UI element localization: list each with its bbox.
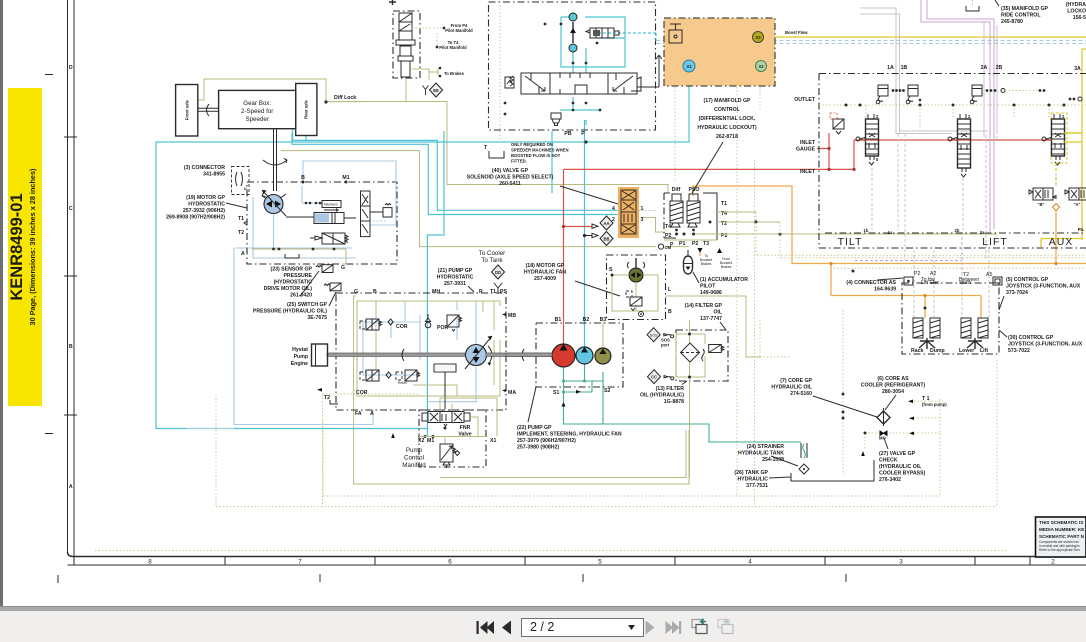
pump: fan pump B3 olive <box>595 348 611 364</box>
svg-text:P1: P1 <box>679 241 685 247</box>
valve: boost directional spool <box>505 55 662 94</box>
wire: gray dotted port1 stub <box>639 210 656 212</box>
junction dots filter <box>688 333 691 379</box>
wire: motor internal blue loop <box>253 161 396 258</box>
svg-text:Diff Lock: Diff Lock <box>334 95 356 101</box>
svg-text:FNR: FNR <box>460 425 471 431</box>
shaft: front axle to gearbox <box>198 104 219 116</box>
wire: khaki diff-lock run gearbox to Diff solenoid <box>198 79 668 192</box>
svg-text:A: A <box>241 251 245 257</box>
svg-text:A5: A5 <box>986 272 992 278</box>
box: rear axle <box>296 84 317 136</box>
svg-text:(5) CONTROL GP: (5) CONTROL GP <box>1006 277 1049 283</box>
label: (3) CONNECTOR <box>184 165 225 178</box>
label: pump top ports G B MH R T1 PS <box>354 289 507 295</box>
svg-text:JOYSTICK (3-FUNCTION, AUX: JOYSTICK (3-FUNCTION, AUX <box>1008 342 1083 348</box>
separator band <box>0 606 1086 612</box>
label: motor ports B M1 T1 T2 A G <box>238 175 350 271</box>
shaft: drive shaft through pump <box>327 349 552 361</box>
svg-text:OIL: OIL <box>713 310 722 316</box>
wire: khaki brake valve drops <box>406 69 429 102</box>
wire: khaki outlet dotted rail <box>819 104 1086 106</box>
label: (24) STRAINER HYDRAULIC TANK <box>738 444 798 466</box>
valve: COR upper <box>360 319 408 330</box>
label: (26) TANK GP HYDRAULIC <box>734 470 791 489</box>
svg-text:276-3402: 276-3402 <box>879 477 901 483</box>
junction dots joystick <box>852 270 927 310</box>
svg-text:A: A <box>370 411 374 417</box>
box: fan motor dash-dot <box>607 255 666 320</box>
pump: implement pump B1 red <box>552 344 575 367</box>
svg-text:2a: 2a <box>980 230 985 235</box>
valve: POR <box>425 314 461 331</box>
svg-text:SOS: SOS <box>650 333 658 337</box>
wire: khaki manifold inner <box>419 398 497 444</box>
label: (40) VALVE GP SOLENOID <box>467 168 618 204</box>
svg-text:D: D <box>69 65 73 71</box>
svg-text:(HYDRAULIC OIL: (HYDRAULIC OIL <box>879 464 922 470</box>
box: hystat engine <box>291 344 328 367</box>
connector: (4) square <box>904 277 913 285</box>
wire: cyan axle select upper <box>293 128 618 210</box>
svg-text:EE: EE <box>433 88 439 93</box>
svg-text:262-8718: 262-8718 <box>716 134 738 140</box>
label: T2 port arrow <box>317 388 338 404</box>
svg-text:T4: T4 <box>665 224 671 230</box>
svg-text:(3) CONNECTOR: (3) CONNECTOR <box>184 165 225 171</box>
symbol: orange pilot diamond <box>1053 204 1060 211</box>
cooler: diamond heat exchanger <box>877 408 890 426</box>
left gray strip <box>0 0 3 606</box>
label: FA A bottom <box>355 411 374 417</box>
svg-text:HYDRAULIC: HYDRAULIC <box>737 477 768 483</box>
svg-text:257-4009: 257-4009 <box>534 276 556 282</box>
compensator: lift pair <box>970 85 1045 104</box>
svg-text:OUTLET: OUTLET <box>794 97 816 103</box>
svg-text:257-3932 (906H2): 257-3932 (906H2) <box>183 208 225 214</box>
valve: boost relief cartridge <box>586 28 619 38</box>
sensor: (25) pressure switch symbol <box>324 283 341 291</box>
spool: LIFT section <box>948 114 971 177</box>
wire: cyan boost internal <box>560 12 656 125</box>
label: joystick tiny ports <box>914 271 992 286</box>
svg-text:(23) SENSOR GP: (23) SENSOR GP <box>270 267 312 273</box>
label: From Boosted Brakes <box>717 248 732 269</box>
junction dots cooler <box>842 393 867 435</box>
svg-text:X1: X1 <box>686 64 692 69</box>
svg-text:Pump: Pump <box>294 354 308 360</box>
label: (19) MOTOR GP <box>166 195 247 221</box>
wire: teal junction dots <box>562 380 586 394</box>
svg-text:373-7024: 373-7024 <box>1006 290 1028 296</box>
valve: right selector column <box>361 191 371 237</box>
symbol: BB diamond <box>583 232 613 246</box>
label: (21) PUMP GP HYDROSTATIC <box>437 268 474 292</box>
svg-text:M1: M1 <box>342 175 349 181</box>
svg-text:HYDROSTATIC: HYDROSTATIC <box>437 275 474 281</box>
shaft: into implement pump <box>506 353 552 356</box>
box: implement pump dash-dot <box>536 323 623 387</box>
junction dots outlet rail <box>845 104 1066 107</box>
valve: fan relief <box>626 291 642 311</box>
label: (22) PUMP GP IMPLEMENT <box>517 387 622 451</box>
junction dots motor <box>272 202 335 251</box>
label: (23) SENSOR GP <box>264 267 319 299</box>
svg-text:THIS SCHEMATIC IS: THIS SCHEMATIC IS <box>1039 520 1083 525</box>
joystick: rack dump coils <box>911 318 945 354</box>
svg-text:1B: 1B <box>901 65 908 71</box>
svg-text:HYDRAULIC TANK: HYDRAULIC TANK <box>738 451 784 457</box>
label: S1 S2 and arrows <box>553 388 610 407</box>
svg-text:PILOT: PILOT <box>700 284 716 290</box>
svg-text:HYDROSTATIC: HYDROSTATIC <box>188 202 225 208</box>
svg-text:GAUGE: GAUGE <box>796 147 816 153</box>
label: MB MA ports <box>502 313 516 396</box>
label: (1) ACCUMULATOR PILOT <box>693 272 748 296</box>
label: (18) MOTOR GP HYDRAULIC FAN <box>524 263 620 296</box>
svg-text:X2: X2 <box>418 438 424 444</box>
svg-text:(35) MANIFOLD GP: (35) MANIFOLD GP <box>1001 6 1049 12</box>
wire: light blue pump inner <box>363 301 476 401</box>
svg-text:(HYDROSTATIC: (HYDROSTATIC <box>274 280 313 286</box>
wire: orange junction dots <box>829 262 1057 297</box>
port: X2 circle <box>756 61 767 72</box>
box: diff dash-dot <box>664 193 670 238</box>
svg-text:JOYSTICK (3-FUNCTION, AUX: JOYSTICK (3-FUNCTION, AUX <box>1006 284 1081 290</box>
valve: FNR spool <box>422 412 470 427</box>
svg-text:Lift Elec: Lift Elec <box>921 280 940 286</box>
svg-text:SOLENOID (AXLE SPEED SELECT): SOLENOID (AXLE SPEED SELECT) <box>467 175 554 181</box>
box: hystat pump dash-dot <box>336 293 506 410</box>
label: (17) MANIFOLD GP <box>692 98 757 193</box>
svg-text:CONTROL: CONTROL <box>714 107 740 113</box>
svg-text:A: A <box>69 484 73 490</box>
box: filter dash-dot <box>676 330 728 381</box>
svg-text:Lift: Lift <box>980 348 988 354</box>
solenoid: PSO coil <box>687 187 700 231</box>
label: (35) MANIFOLD GP RIDE CONTROL <box>995 0 1049 25</box>
label: TILT LIFT AUX <box>838 236 1074 248</box>
svg-text:T1: T1 <box>238 216 244 222</box>
svg-text:Maximum: Maximum <box>324 203 338 207</box>
svg-text:1a: 1a <box>888 230 893 235</box>
svg-text:BOOSTED FLOW IS NOT: BOOSTED FLOW IS NOT <box>511 153 561 158</box>
svg-text:6: 6 <box>448 559 452 566</box>
svg-text:G: G <box>341 265 345 271</box>
wire: silver joystick lines 1A 1B <box>860 8 988 318</box>
valve: COR lower <box>356 370 391 396</box>
svg-text:MB: MB <box>508 313 516 319</box>
svg-text:FITTED.: FITTED. <box>511 159 527 164</box>
svg-text:HYDRAULIC FAN: HYDRAULIC FAN <box>524 270 567 276</box>
svg-text:COR: COR <box>396 324 408 330</box>
symbol: SOS diamond <box>647 328 674 348</box>
symbol: AA diamond <box>592 216 613 230</box>
svg-text:Manifold: Manifold <box>402 462 426 469</box>
svg-text:(HYDRA: (HYDRA <box>1066 2 1086 8</box>
motor: fan motor circle <box>627 258 644 282</box>
wire: purple dashed pilot rail <box>855 260 962 262</box>
label: B1 B2 B3 <box>555 317 607 323</box>
arrows: cooler flow <box>391 417 914 457</box>
fold tick marks <box>45 75 846 584</box>
wire: khaki big loop G port <box>354 296 689 484</box>
wire: yellow boost flow <box>767 37 1086 247</box>
wire: khaki tank return OM line <box>281 151 689 247</box>
symbol: bracket under motor <box>285 254 299 258</box>
box: PSO ladder frame <box>664 193 717 240</box>
info box bottom right <box>1036 517 1086 557</box>
svg-text:MEDIA NUMBER: KE: MEDIA NUMBER: KE <box>1039 527 1084 532</box>
svg-text:PB: PB <box>564 131 571 137</box>
svg-text:(DIFFERENTIAL LOCK,: (DIFFERENTIAL LOCK, <box>699 116 756 122</box>
svg-text:Rack: Rack <box>911 348 924 354</box>
svg-text:AA: AA <box>603 221 609 226</box>
svg-text:269-8908 (907H2/908H2): 269-8908 (907H2/908H2) <box>166 215 225 221</box>
svg-text:M1: M1 <box>427 438 434 444</box>
page cut mark top-left <box>389 0 396 5</box>
label: (4) CONNECTOR AS <box>846 278 903 293</box>
next-view icon (disabled) <box>718 619 733 634</box>
tank: (26) outline <box>791 460 874 481</box>
svg-text:Rear axle: Rear axle <box>303 100 308 119</box>
svg-text:257-3979 (906H2/907H2): 257-3979 (906H2/907H2) <box>517 438 576 444</box>
svg-text:Dump: Dump <box>930 348 945 354</box>
svg-text:PRESSURE: PRESSURE <box>283 273 312 279</box>
svg-text:To Tank: To Tank <box>481 257 503 264</box>
label: From P4 Pilot Manifold <box>412 23 473 33</box>
svg-text:280-3054: 280-3054 <box>882 389 904 395</box>
svg-text:To Brakes: To Brakes <box>444 71 465 76</box>
svg-text:BB: BB <box>603 237 609 242</box>
strainer: (24) tank strainer <box>799 443 809 474</box>
junction dots ladder <box>675 221 782 236</box>
label: G sensor tie <box>342 249 346 264</box>
svg-text:341-8955: 341-8955 <box>203 172 225 178</box>
svg-text:LOCKO: LOCKO <box>1067 9 1086 15</box>
svg-text:B: B <box>668 309 672 315</box>
port: X3 circle <box>753 32 764 43</box>
svg-text:T3: T3 <box>703 241 709 247</box>
svg-text:port: port <box>661 343 670 348</box>
svg-text:(22) PUMP GP: (22) PUMP GP <box>517 425 552 431</box>
svg-text:COR: COR <box>356 390 368 396</box>
svg-text:INLET: INLET <box>800 140 816 146</box>
svg-text:1A: 1A <box>887 65 894 71</box>
label: T1 from pump <box>908 396 947 407</box>
label: To Boosted Brakes <box>698 248 713 266</box>
svg-text:164-9639: 164-9639 <box>874 287 896 293</box>
svg-text:(24) STRAINER: (24) STRAINER <box>747 444 784 450</box>
svg-text:T2: T2 <box>238 230 244 236</box>
svg-text:2A: 2A <box>981 65 988 71</box>
svg-text:1G-8878: 1G-8878 <box>664 399 684 405</box>
svg-text:260-5411: 260-5411 <box>499 181 521 187</box>
svg-text:Speeder: Speeder <box>245 116 268 123</box>
wire: red inlet main <box>564 133 1053 344</box>
svg-text:MO: MO <box>879 436 886 441</box>
bottom toolbar <box>0 611 1086 642</box>
svg-text:ONLY REQUIRED ON: ONLY REQUIRED ON <box>511 142 553 147</box>
label: (13) FILTER OIL <box>640 381 687 405</box>
svg-text:4: 4 <box>748 559 752 566</box>
valve: charge relief <box>370 204 392 222</box>
wire: silver joystick lines 2A 2B <box>962 22 997 318</box>
label: OUTLET INLET GAUGE INLET <box>794 97 816 175</box>
svg-text:X2: X2 <box>758 64 764 69</box>
label: (30) CONTROL GP JOYSTICK <box>999 330 1083 354</box>
svg-text:Hystat: Hystat <box>292 347 308 353</box>
label: bottom ports P P1 P2 T3 <box>670 241 709 248</box>
symbol: orifice <box>639 312 644 317</box>
svg-text:X3: X3 <box>755 35 761 40</box>
joystick: lower lift coils <box>959 318 988 354</box>
svg-text:PS: PS <box>500 289 507 295</box>
label: (6) CORE AS COOLER <box>861 376 926 410</box>
symbol: drain Y <box>423 86 429 96</box>
spool: AUX section <box>1042 113 1067 165</box>
pilot valve: aux B <box>1029 188 1056 207</box>
accumulator: (1) pilot <box>684 250 693 274</box>
wire: khaki dotted manifold drops from orange box <box>675 87 760 507</box>
solenoid: Diff coil <box>670 187 683 231</box>
svg-text:257-3980 (908H2): 257-3980 (908H2) <box>517 445 559 451</box>
svg-text:156-5: 156-5 <box>1073 15 1086 21</box>
svg-text:Engine: Engine <box>291 361 308 367</box>
svg-text:4: 4 <box>612 206 615 212</box>
svg-text:274-5160: 274-5160 <box>790 391 812 397</box>
svg-text:B: B <box>373 289 377 295</box>
svg-text:C: C <box>69 206 73 212</box>
svg-text:T1: T1 <box>490 289 496 295</box>
svg-text:IMPLEMENT, STEERING, HYDRAULIC: IMPLEMENT, STEERING, HYDRAULIC FAN <box>517 432 622 438</box>
yellow banner <box>8 88 42 406</box>
svg-text:149-0686: 149-0686 <box>700 290 722 296</box>
previous-view icon <box>692 619 707 634</box>
component: pilot cup <box>551 113 561 126</box>
port: X1 circle <box>683 60 695 72</box>
symbol: OM orifice check <box>658 244 671 250</box>
svg-text:Relief: Relief <box>398 381 407 385</box>
svg-text:Pilot Manifold: Pilot Manifold <box>439 45 467 50</box>
prev-page button <box>502 621 511 635</box>
svg-text:(7) CORE GP: (7) CORE GP <box>780 378 812 384</box>
svg-text:"B": "B" <box>1038 202 1045 207</box>
svg-text:(4) CONNECTOR AS: (4) CONNECTOR AS <box>846 280 896 286</box>
wire: teal pump suction to tank <box>564 364 802 442</box>
connector: (3) box <box>232 167 250 195</box>
svg-text:G: G <box>354 289 358 295</box>
svg-text:2B: 2B <box>996 65 1003 71</box>
svg-text:B: B <box>301 175 305 181</box>
svg-text:HYDRAULIC OIL: HYDRAULIC OIL <box>771 385 812 391</box>
label: (5) CONTROL GP JOYSTICK <box>999 277 1081 310</box>
label: (27) VALVE GP CHECK <box>879 438 926 483</box>
svg-text:OIL (HYDRAULIC): OIL (HYDRAULIC) <box>640 393 684 399</box>
svg-text:CC: CC <box>651 375 657 380</box>
svg-text:3E-7675: 3E-7675 <box>307 315 327 321</box>
page input <box>521 618 644 637</box>
box: manifold orange <box>664 18 775 86</box>
svg-text:Front axle: Front axle <box>185 100 190 121</box>
svg-text:P2: P2 <box>665 233 671 239</box>
box: implement valve dash-dot frame <box>819 74 1086 249</box>
svg-text:573-7022: 573-7022 <box>1008 348 1030 354</box>
svg-text:AUX: AUX <box>1049 236 1074 248</box>
svg-text:(21) PUMP GP: (21) PUMP GP <box>438 268 473 274</box>
svg-text:MA: MA <box>508 390 516 396</box>
svg-text:(13) FILTER: (13) FILTER <box>656 386 685 392</box>
valve: maximum displacement servo <box>286 201 356 224</box>
wire: khaki fan motor loop <box>612 275 760 357</box>
svg-text:(40) VALVE GP: (40) VALVE GP <box>492 168 529 174</box>
filter: element diamond <box>681 343 700 362</box>
svg-text:137-7747: 137-7747 <box>700 316 722 322</box>
wire: cyan axle select lower <box>292 133 618 215</box>
svg-text:HYDRAULIC LOCKOUT): HYDRAULIC LOCKOUT) <box>697 125 757 131</box>
svg-text:FA: FA <box>355 411 362 417</box>
label: 1A 1B 2A 2B 3A <box>887 65 1081 72</box>
wire: khaki pump inner loop <box>357 301 500 396</box>
last-page button (disabled) <box>666 621 682 634</box>
compensator: aux pair <box>1069 97 1082 101</box>
svg-text:3: 3 <box>899 559 903 566</box>
shaft: gearbox down to motor <box>262 129 287 200</box>
svg-text:(1) ACCUMULATOR: (1) ACCUMULATOR <box>700 277 748 283</box>
label: To T4 Pilot Manifold <box>436 33 468 50</box>
svg-text:(18) MOTOR GP: (18) MOTOR GP <box>526 263 565 269</box>
wire: light blue pump loop left <box>186 248 477 429</box>
first-page button <box>477 621 495 634</box>
svg-text:Brakes: Brakes <box>721 265 732 269</box>
svg-text:3A: 3A <box>1074 66 1081 72</box>
svg-text:(25) SWITCH GP: (25) SWITCH GP <box>287 302 328 308</box>
svg-text:P2: P2 <box>914 271 920 277</box>
label: Diff Lock <box>324 95 356 104</box>
svg-text:Pump: Pump <box>406 447 423 454</box>
svg-text:(19) MOTOR GP: (19) MOTOR GP <box>186 195 225 201</box>
svg-text:To Cooler: To Cooler <box>479 250 505 257</box>
svg-text:Refer to the appropriate Serv: Refer to the appropriate Serv <box>1039 548 1081 552</box>
svg-text:245-8780: 245-8780 <box>1001 19 1023 25</box>
svg-text:MH: MH <box>432 289 440 295</box>
svg-text:R: R <box>479 289 483 295</box>
wire: red check feeds <box>860 139 1052 141</box>
label: (25) SWITCH GP <box>253 292 336 321</box>
svg-text:X1: X1 <box>490 438 496 444</box>
svg-text:2-Speed for: 2-Speed for <box>241 108 273 115</box>
wire: yellow aux spool lines <box>1056 133 1082 186</box>
svg-text:1: 1 <box>641 206 644 212</box>
wire: khaki B3 riser <box>602 320 604 349</box>
label: 1b 1a 2b 2a PIL <box>864 227 1085 235</box>
svg-text:CHECK: CHECK <box>879 458 898 464</box>
label: ladder ports T1 T4 T2 P2 <box>665 201 727 239</box>
svg-text:(27) VALVE GP: (27) VALVE GP <box>879 451 916 457</box>
svg-text:SPEEDER MACHINES WHEN: SPEEDER MACHINES WHEN <box>511 148 568 153</box>
valve: relief lower <box>396 370 420 385</box>
box: motor group dash-dot <box>247 182 397 264</box>
svg-text:TILT: TILT <box>838 236 863 248</box>
svg-text:P: P <box>581 131 585 137</box>
svg-text:Pilot Manifold: Pilot Manifold <box>445 28 473 33</box>
svg-text:DD: DD <box>495 270 501 275</box>
valve: check MO <box>879 431 887 441</box>
bottom ruler <box>68 552 1086 566</box>
svg-text:PSO: PSO <box>689 187 700 193</box>
svg-text:5: 5 <box>598 559 602 566</box>
box: boost valve dash-dot <box>489 2 656 130</box>
